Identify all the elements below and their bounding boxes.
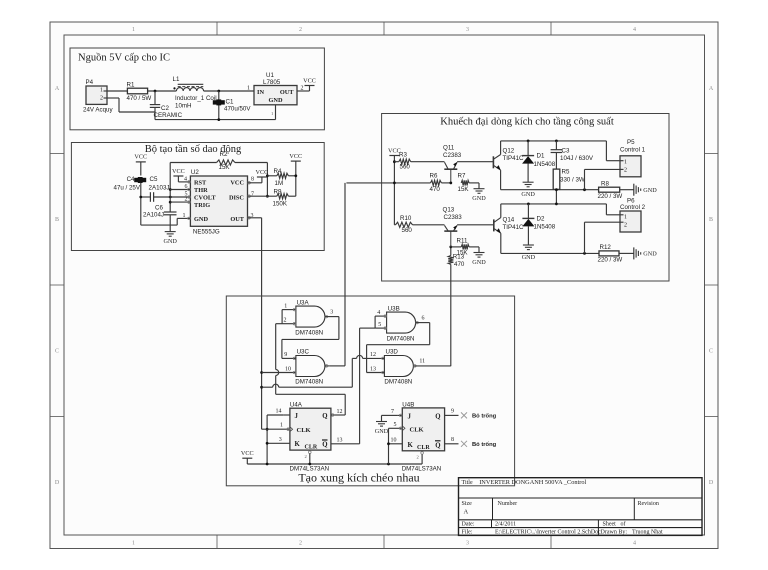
svg-text:11: 11 <box>419 359 425 365</box>
svg-text:5: 5 <box>378 322 381 328</box>
svg-text:104J / 630V: 104J / 630V <box>560 155 594 162</box>
svg-text:C6: C6 <box>155 205 163 212</box>
wire CLK to U3C pin10 <box>262 367 296 374</box>
svg-text:470 / 5W: 470 / 5W <box>127 95 152 102</box>
wire U3B input to Q-bar of U4A (net QA-bar) <box>331 328 375 444</box>
power VCC right of U2 <box>289 153 302 196</box>
wire Q11 emitter to Q12 base <box>457 161 493 163</box>
svg-text:Q: Q <box>322 442 327 449</box>
svg-text:OUT: OUT <box>280 89 294 96</box>
svg-text:R3: R3 <box>399 152 407 159</box>
svg-text:150K: 150K <box>273 201 288 208</box>
svg-text:Truong Nhat: Truong Nhat <box>632 529 663 535</box>
svg-text:R12: R12 <box>600 244 612 251</box>
svg-text:15K: 15K <box>457 249 469 256</box>
svg-text:C: C <box>55 349 59 355</box>
ground at D2 <box>522 245 536 261</box>
wire U1 OUT to VCC <box>297 86 310 92</box>
svg-text:VCC: VCC <box>289 153 302 160</box>
svg-text:Q14: Q14 <box>503 217 515 224</box>
svg-text:DM7408N: DM7408N <box>295 379 323 386</box>
wire CLK across to right half (net CLK2) <box>262 355 367 387</box>
svg-text:8: 8 <box>251 177 254 183</box>
svg-text:U4B: U4B <box>402 401 414 408</box>
block: Tao xung kich cheo nhau (cross pulse generator) <box>226 296 514 486</box>
svg-text:K: K <box>408 442 414 449</box>
svg-text:File:: File: <box>462 529 473 535</box>
svg-text:DM74LS73AN: DM74LS73AN <box>402 466 442 473</box>
and gate U3D DM7408N <box>384 349 413 386</box>
resistor R8 220/3W <box>598 180 634 200</box>
power VCC for RST <box>172 168 190 182</box>
svg-text:VCC: VCC <box>256 169 269 176</box>
capacitor C6 2A104J <box>143 205 177 219</box>
svg-text:DM7408N: DM7408N <box>384 379 412 386</box>
wire U3A inputs tied <box>282 304 296 326</box>
svg-text:10mH: 10mH <box>175 103 192 110</box>
wire Q12 collector to rail 1 <box>500 141 502 155</box>
svg-text:R11: R11 <box>457 238 468 245</box>
svg-text:A: A <box>709 86 714 92</box>
svg-text:470u/50V: 470u/50V <box>224 106 251 113</box>
svg-text:C2383: C2383 <box>443 152 462 159</box>
svg-text:IN: IN <box>257 89 264 96</box>
wire U3C out to R6 (drive 1) <box>346 182 430 185</box>
svg-text:U2: U2 <box>191 169 199 176</box>
wire Q13 emitter to Q14 base <box>457 224 494 226</box>
svg-text:2: 2 <box>624 223 627 229</box>
ground rail of supply block <box>155 118 276 121</box>
svg-text:10: 10 <box>285 367 291 373</box>
wire rail 2 (control 2 net) <box>501 203 620 215</box>
svg-text:TRIG: TRIG <box>194 202 210 209</box>
svg-text:9: 9 <box>284 352 287 358</box>
wire GND pin1 of U2 <box>177 218 190 225</box>
svg-text:470: 470 <box>454 261 465 268</box>
wire THR/TRIG bus <box>169 163 172 232</box>
wire rail 1 (control 1 net) <box>501 140 620 161</box>
svg-text:Revision: Revision <box>638 501 659 507</box>
svg-text:2: 2 <box>624 167 627 173</box>
svg-text:2: 2 <box>100 96 103 102</box>
wire DISC pin7 <box>248 195 277 197</box>
svg-text:C1: C1 <box>226 99 234 106</box>
label DM74LS73AN for U4B <box>402 466 442 473</box>
svg-text:L7805: L7805 <box>263 79 281 86</box>
svg-text:470: 470 <box>430 186 441 193</box>
ground wall at R8 <box>634 184 657 196</box>
svg-text:220 / 3W: 220 / 3W <box>598 193 623 200</box>
svg-text:GND: GND <box>269 97 283 104</box>
svg-text:1: 1 <box>284 304 287 310</box>
ground GND of oscillator <box>163 232 177 246</box>
wire U3D out to R13 (drive 2) <box>449 246 452 256</box>
svg-text:2: 2 <box>417 455 419 460</box>
svg-text:Bỏ trống: Bỏ trống <box>472 441 497 448</box>
svg-text:1N5408: 1N5408 <box>534 161 556 168</box>
connector P4 24V Acquy <box>83 79 113 114</box>
svg-text:6: 6 <box>185 184 188 190</box>
svg-text:K: K <box>295 441 301 448</box>
svg-text:2: 2 <box>299 27 302 33</box>
svg-text:GND: GND <box>643 251 657 258</box>
svg-text:Title: Title <box>462 480 473 486</box>
svg-text:1M: 1M <box>275 180 284 187</box>
svg-text:CLK: CLK <box>297 427 311 434</box>
svg-text:GND: GND <box>472 195 486 202</box>
wire U3B inputs tied <box>375 310 387 329</box>
svg-text:TIP41C: TIP41C <box>503 155 525 162</box>
svg-text:Q11: Q11 <box>443 145 455 152</box>
svg-text:Khuếch đại dòng kích cho tầng: Khuếch đại dòng kích cho tầng công suất <box>440 117 614 128</box>
wire 555 output down to CLK (net CLK) <box>260 218 263 429</box>
svg-text:3: 3 <box>330 310 333 316</box>
svg-text:GND: GND <box>163 238 177 245</box>
svg-text:1: 1 <box>183 213 186 219</box>
svg-text:C3: C3 <box>562 148 570 155</box>
flip-flop U4B DM74LS73AN <box>402 401 444 451</box>
wire U3A input to Q of U4A (net QA) <box>276 324 346 444</box>
block: Nguon 5V cap cho IC (5V supply) <box>70 48 324 130</box>
svg-text:2/4/2011: 2/4/2011 <box>495 522 516 528</box>
block: Khuech dai dong kich cho tang cong suat (driver block) <box>382 114 669 282</box>
resistor R3 560 <box>393 152 445 171</box>
connector P6 Control 2 <box>620 198 646 233</box>
svg-text:Number: Number <box>498 501 518 507</box>
svg-text:D2: D2 <box>537 215 545 222</box>
svg-text:Sheet: Sheet <box>603 522 617 528</box>
power VCC for U2 pin8 <box>248 169 269 183</box>
wire R1 to L1 <box>148 90 177 93</box>
svg-text:P5: P5 <box>627 139 635 146</box>
wire THR pin6 <box>170 189 190 191</box>
svg-text:Control 2: Control 2 <box>620 204 646 211</box>
svg-text:D: D <box>55 480 60 486</box>
regulator U1 L7805 <box>247 72 304 105</box>
inductor L1 10mH <box>173 76 217 110</box>
svg-text:Size: Size <box>462 501 473 507</box>
wire U4B J pin7 to ground <box>382 409 403 422</box>
power VCC for C4 <box>134 154 147 176</box>
svg-text:DM7408N: DM7408N <box>295 330 323 337</box>
svg-text:VCC: VCC <box>241 450 254 457</box>
svg-text:14: 14 <box>276 409 282 415</box>
svg-text:1: 1 <box>247 86 250 92</box>
svg-text:CLR: CLR <box>417 445 430 451</box>
svg-text:OUT: OUT <box>230 216 244 223</box>
svg-text:47u / 25V: 47u / 25V <box>114 185 141 192</box>
resistor R2 15K <box>170 151 267 171</box>
svg-text:1: 1 <box>280 423 283 429</box>
svg-text:Q12: Q12 <box>503 148 515 155</box>
svg-text:2A103J: 2A103J <box>149 185 170 192</box>
svg-text:J: J <box>295 413 299 420</box>
svg-text:NE555JG: NE555JG <box>193 229 220 236</box>
label DM74LS73AN for U4A <box>290 466 330 473</box>
wire TRIG pin2 <box>170 201 190 203</box>
ground at U4B J <box>375 422 389 436</box>
svg-text:R5: R5 <box>562 169 570 176</box>
svg-text:TIP41C: TIP41C <box>503 224 525 231</box>
svg-text:B: B <box>55 217 59 223</box>
svg-text:Date:: Date: <box>462 522 475 528</box>
svg-text:R6: R6 <box>430 173 438 180</box>
wire U4A J,K to VCC rail <box>266 409 290 465</box>
svg-text:CLR: CLR <box>305 445 318 451</box>
svg-text:Bỏ trống: Bỏ trống <box>472 413 497 420</box>
ground at R11 <box>472 253 486 267</box>
svg-text:2: 2 <box>185 197 188 203</box>
svg-text:GND: GND <box>643 187 657 194</box>
wire U4B CLK,K to VCC rail <box>387 422 402 464</box>
svg-text:VCC: VCC <box>230 179 244 186</box>
svg-text:13: 13 <box>337 438 343 444</box>
svg-text:5: 5 <box>394 422 397 428</box>
wire P4.1 to R1 <box>107 90 127 92</box>
power VCC of logic block <box>241 450 422 465</box>
svg-text:3: 3 <box>279 437 282 443</box>
svg-text:Inductor_1 Coil: Inductor_1 Coil <box>175 95 217 102</box>
svg-text:C4: C4 <box>127 176 135 183</box>
wire C4 bottom rail <box>141 224 177 226</box>
svg-text:U3A: U3A <box>297 300 310 307</box>
svg-text:Q: Q <box>322 413 327 420</box>
capacitor C1 470u/50V <box>213 91 252 120</box>
wire U4B Q output open <box>445 409 467 419</box>
svg-text:GND: GND <box>522 254 536 261</box>
svg-text:Bộ tạo tần số dao động: Bộ tạo tần số dao động <box>145 144 242 155</box>
svg-text:15K: 15K <box>458 186 470 193</box>
inner border frame <box>64 35 705 535</box>
svg-text:220 / 3W: 220 / 3W <box>598 257 623 264</box>
svg-text:10: 10 <box>391 437 397 443</box>
wire P6 pin2 to emitter node <box>585 222 621 253</box>
svg-text:J: J <box>408 413 412 420</box>
svg-text:330 / 3W: 330 / 3W <box>560 177 585 184</box>
wire P5 pin2 to emitter node <box>585 169 621 189</box>
svg-text:GND: GND <box>375 428 389 435</box>
wire U3B output loop to U3D pin12 <box>367 316 430 374</box>
svg-text:C5: C5 <box>150 176 158 183</box>
ic U2 NE555JG <box>183 169 255 236</box>
svg-text:12: 12 <box>337 409 343 415</box>
svg-text:Nguồn 5V cấp cho IC: Nguồn 5V cấp cho IC <box>78 53 170 64</box>
svg-text:12: 12 <box>370 352 376 358</box>
svg-text:VCC: VCC <box>172 168 185 175</box>
and gate U3A DM7408N <box>295 300 325 337</box>
svg-text:1: 1 <box>271 111 273 116</box>
and gate U3C DM7408N <box>295 349 325 386</box>
svg-text:INVERTER DONGANH 500VA _Contro: INVERTER DONGANH 500VA _Control <box>479 479 586 486</box>
svg-text:Q: Q <box>435 413 440 420</box>
svg-text:CERAMIC: CERAMIC <box>154 112 183 119</box>
transistor Q12 TIP41C <box>493 148 524 170</box>
svg-text:U3B: U3B <box>388 306 400 313</box>
capacitor C3 104J/630V <box>551 141 594 169</box>
svg-text:560: 560 <box>400 164 411 171</box>
svg-text:4: 4 <box>633 27 636 33</box>
svg-text:1N5408: 1N5408 <box>534 224 556 231</box>
svg-text:1: 1 <box>624 159 627 165</box>
svg-text:C2383: C2383 <box>444 214 463 221</box>
svg-text:D1: D1 <box>537 153 545 160</box>
svg-text:CLK: CLK <box>410 427 424 434</box>
svg-text:E:\ELECTRIC\..\Inverter Contro: E:\ELECTRIC\..\Inverter Control 2.SchDoc <box>495 529 601 535</box>
svg-text:GND: GND <box>194 216 208 223</box>
svg-text:RST: RST <box>194 179 207 186</box>
svg-text:2: 2 <box>299 541 302 547</box>
svg-text:R10: R10 <box>400 215 412 222</box>
svg-text:Tạo xung kích chéo nhau: Tạo xung kích chéo nhau <box>298 471 419 485</box>
svg-text:Control 1: Control 1 <box>620 147 646 154</box>
resistor R4 1M <box>267 168 295 187</box>
svg-text:2: 2 <box>284 318 287 324</box>
svg-text:Q: Q <box>435 442 440 449</box>
svg-text:4: 4 <box>184 177 187 183</box>
svg-text:Drawn By:: Drawn By: <box>601 529 628 535</box>
svg-text:A: A <box>464 509 469 516</box>
resistor R11 15K <box>451 238 479 257</box>
svg-text:U1: U1 <box>266 72 274 79</box>
power VCC of driver block <box>388 147 401 225</box>
svg-text:13: 13 <box>370 366 376 372</box>
svg-text:DISC: DISC <box>229 194 244 201</box>
svg-text:THR: THR <box>194 187 208 194</box>
svg-text:GND: GND <box>521 191 535 198</box>
svg-text:of: of <box>621 521 626 528</box>
wire Q12 emitter node <box>501 170 599 191</box>
svg-text:DM74LS73AN: DM74LS73AN <box>290 466 330 473</box>
resistor R1 470/5W <box>127 82 152 103</box>
svg-text:1: 1 <box>100 88 103 94</box>
wire L1 to U1 IN <box>204 90 254 93</box>
svg-text:3: 3 <box>466 541 469 547</box>
svg-text:Q13: Q13 <box>443 207 455 214</box>
resistor R13 470 <box>448 254 465 367</box>
svg-text:A: A <box>55 86 60 92</box>
connector P5 Control 1 <box>620 139 646 177</box>
svg-text:DM7408N: DM7408N <box>387 336 415 343</box>
resistor R12 220/3W <box>598 244 634 264</box>
wire U3C output up to driver block <box>325 183 345 367</box>
wire U3D output to driver block <box>413 359 450 368</box>
svg-text:2: 2 <box>305 454 307 459</box>
svg-text:R4: R4 <box>274 168 282 175</box>
svg-text:4: 4 <box>377 310 380 316</box>
wire U4B CLR to rail <box>417 452 424 464</box>
title block <box>459 478 703 536</box>
resistor R6 470 <box>430 173 451 193</box>
wire U4B Q-bar output open <box>445 437 467 447</box>
svg-text:R2: R2 <box>220 151 228 158</box>
wire Q14 collector to rail 2 <box>500 204 502 218</box>
svg-text:VCC: VCC <box>303 77 316 84</box>
wire U3A output to U3C pin9 <box>282 310 339 360</box>
transistor Q13 C2383 <box>443 207 463 247</box>
svg-text:1: 1 <box>624 215 627 221</box>
svg-text:B: B <box>709 217 713 223</box>
wire U2 OUT pin3 <box>248 217 262 220</box>
ground wall at R12 <box>634 247 657 259</box>
svg-text:4: 4 <box>633 541 636 547</box>
svg-text:C: C <box>709 349 713 355</box>
diode D1 1N5408 <box>522 141 556 182</box>
wire P4.2 down <box>107 98 155 112</box>
capacitor C5 2A103J <box>139 176 190 202</box>
wire R2 to DISC <box>266 163 269 198</box>
svg-text:9: 9 <box>451 409 454 415</box>
svg-text:2A104J: 2A104J <box>143 212 164 219</box>
svg-text:U3D: U3D <box>386 349 399 356</box>
ground at D1 <box>521 182 535 198</box>
transistor Q14 TIP41C <box>494 217 524 234</box>
transistor Q11 C2383 <box>443 145 462 185</box>
svg-text:1: 1 <box>132 27 135 33</box>
svg-text:15K: 15K <box>219 164 231 171</box>
power VCC at U1 output <box>303 77 316 85</box>
svg-text:560: 560 <box>402 227 413 234</box>
capacitor C2 CERAMIC <box>150 91 183 120</box>
svg-text:R1: R1 <box>127 82 135 89</box>
title block texts <box>462 479 663 535</box>
svg-text:7: 7 <box>391 409 394 415</box>
diode D2 1N5408 <box>522 204 555 245</box>
svg-text:8: 8 <box>451 437 454 443</box>
capacitor C4 47u/25V <box>114 176 147 225</box>
svg-text:R8: R8 <box>601 180 609 187</box>
block: Bo tao tan so dao dong (555 oscillator) <box>71 143 324 251</box>
svg-text:24V Acquy: 24V Acquy <box>83 107 113 114</box>
resistor R9 150K <box>273 188 296 207</box>
wire U4A CLR to rail <box>305 451 312 464</box>
svg-text:GND: GND <box>472 259 486 266</box>
svg-text:C2: C2 <box>161 105 169 112</box>
svg-text:U4A: U4A <box>290 402 303 409</box>
svg-text:L1: L1 <box>173 76 180 83</box>
label Bo trong (leave open) Q <box>472 413 497 420</box>
svg-text:1: 1 <box>132 541 135 547</box>
resistor R7 15K <box>458 173 480 193</box>
ground at R7 <box>472 189 486 203</box>
svg-text:VCC: VCC <box>134 154 147 161</box>
svg-text:P4: P4 <box>86 79 94 86</box>
svg-text:3: 3 <box>466 27 469 33</box>
wire U1 GND stem <box>271 105 276 120</box>
label Bo trong (leave open) Q-bar <box>472 441 497 448</box>
wire Q14 emitter node <box>501 233 599 255</box>
resistor R10 560 <box>394 215 444 234</box>
and gate U3B DM7408N <box>387 306 416 343</box>
svg-text:6: 6 <box>422 316 425 322</box>
svg-text:R9: R9 <box>274 188 282 195</box>
svg-text:U3C: U3C <box>297 349 310 356</box>
svg-text:D: D <box>709 480 714 486</box>
resistor R5 330/3W <box>553 169 585 204</box>
svg-text:CVOLT: CVOLT <box>194 194 216 201</box>
wire CLK into U4A pin1 <box>262 423 290 431</box>
flip-flop U4A DM74LS73AN <box>290 402 331 451</box>
svg-text:R7: R7 <box>458 173 466 180</box>
